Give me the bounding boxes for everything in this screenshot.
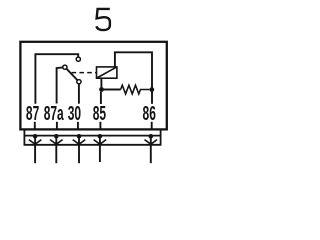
strip top edge [24,135,160,137]
armature (movable contact) [66,69,77,80]
junction node 86 [149,87,154,92]
tick below 86 [151,122,153,129]
label 5 (relay number) [96,9,110,30]
coil K1 body [97,67,117,78]
coil diagonal [97,67,117,78]
resistor R1 zigzag [121,85,150,94]
wire coil top to rail [115,52,152,104]
svg-text:30: 30 [68,103,81,125]
terminal arrow 87 [29,134,42,163]
svg-text:87a: 87a [44,103,65,125]
mechanical link (dashed) [72,72,97,74]
wire pin30 down [78,84,80,104]
connector base strip [24,130,160,144]
tick below 30 [77,122,79,129]
wire pin87a stub [57,67,63,103]
svg-text:85: 85 [93,103,106,125]
svg-text:86: 86 [143,103,156,125]
wire coil bottom [100,78,102,89]
terminal arrow 86 [145,134,158,163]
tick below 87 [34,122,36,129]
wire bottom rail to resistor [102,89,121,91]
wire pin87 up and top rail to NO contact [35,54,78,103]
junction node 85 [99,87,104,92]
svg-text:87: 87 [26,103,39,125]
tick below 87a [56,122,58,129]
tick below 85 [99,122,101,129]
terminal arrow 87a [50,134,63,163]
pivot circle 87a [63,65,67,69]
terminal arrow 85 [94,134,107,162]
relay body box [20,42,166,130]
terminal arrow 30 [73,134,86,163]
wire pin85 down [100,92,102,104]
contact circle 87 [76,57,80,61]
contact circle 30 [77,80,81,84]
